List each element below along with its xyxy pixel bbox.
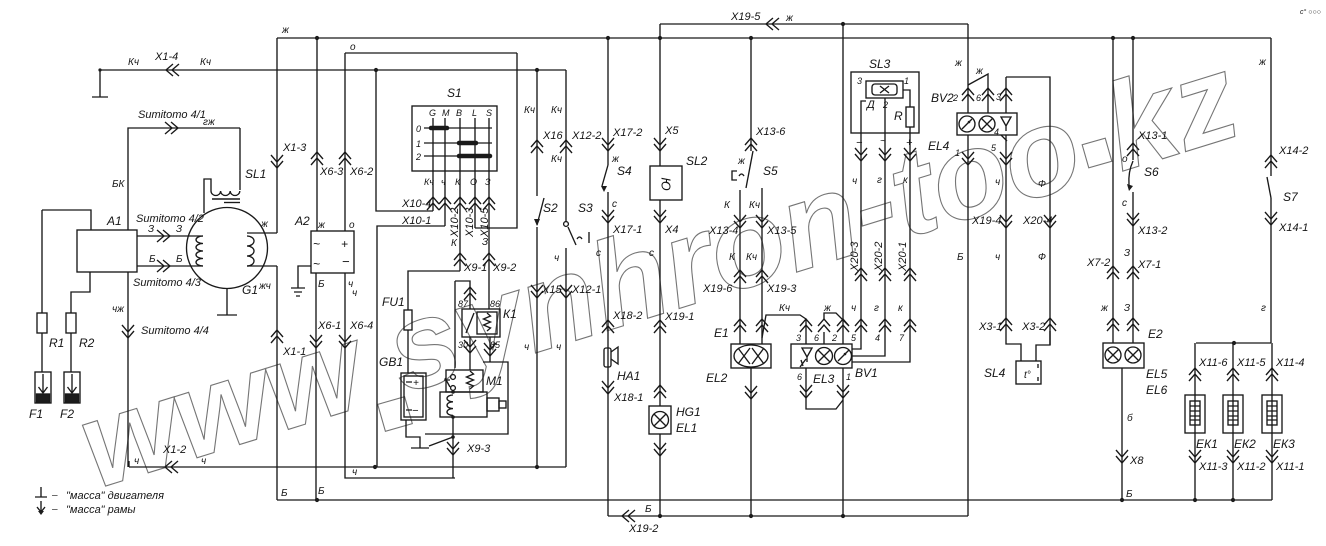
svg-text:ч: ч (995, 177, 1000, 188)
svg-text:−: − (856, 137, 863, 149)
svg-text:ж: ж (954, 58, 963, 69)
wire K1 pin30 down to M1 (469, 337, 471, 370)
svg-text:+: + (341, 237, 348, 251)
connector X13-6 (745, 138, 757, 151)
connector X14-2 (1265, 155, 1277, 168)
svg-text:X13-6: X13-6 (755, 126, 786, 138)
wire S2 column (Кч X16 X15 ч) (536, 70, 538, 467)
S1 column wires (433, 118, 489, 309)
svg-text:Кч: Кч (749, 200, 760, 211)
svg-text:Sumitomo 4/3: Sumitomo 4/3 (133, 277, 202, 289)
connector X17-2 (602, 138, 614, 151)
M1 motor winding (447, 395, 453, 415)
node junctions on Б bus (315, 498, 1235, 502)
svg-text:З: З (176, 224, 182, 235)
svg-text:ж: ж (1100, 303, 1109, 314)
svg-text:ч: ч (524, 342, 529, 353)
svg-text:2: 2 (831, 333, 837, 343)
connectors X11-6 X11-5 X11-4 (1189, 368, 1201, 381)
connector X13-1 (1127, 143, 1139, 156)
component A2 (rectifier) (311, 231, 354, 273)
svg-text:З: З (1124, 303, 1130, 314)
component SL3 box (851, 72, 919, 133)
wire Х6-3 (ж) from main bus to A2 (316, 38, 318, 231)
svg-text:X1-1: X1-1 (282, 346, 306, 358)
connector below EL2 (745, 386, 757, 399)
svg-text:~: ~ (313, 257, 320, 271)
svg-text:6: 6 (814, 333, 819, 343)
svg-text:Б: Б (318, 279, 325, 290)
svg-text:S7: S7 (1283, 190, 1299, 204)
wire ч from X19-5 bus down to EL3 pin2 (842, 24, 844, 344)
ground at A2 (291, 266, 311, 296)
svg-text:85: 85 (490, 340, 501, 350)
svg-text:ж: ж (1258, 57, 1267, 68)
svg-text:А1: А1 (106, 214, 122, 228)
svg-text:ж: ж (317, 220, 326, 231)
component SL2 box (650, 166, 682, 200)
svg-text:Б: Б (281, 488, 288, 499)
wire EK3 column (1271, 343, 1273, 500)
wire S5 output К (X13-4, X19-6) to E1 (739, 190, 741, 344)
svg-text:4: 4 (994, 127, 999, 137)
wire K1 pin85 down to starter housing (489, 337, 491, 362)
svg-text:З: З (148, 224, 154, 235)
svg-text:X11-2: X11-2 (1236, 461, 1266, 473)
svg-text:X13-2: X13-2 (1137, 225, 1167, 237)
svg-text:Кч: Кч (551, 154, 562, 165)
lamp HG1/EL1 (649, 406, 671, 434)
watermark www synhron-too kz (63, 28, 1252, 515)
svg-text:X1-2: X1-2 (162, 444, 186, 456)
svg-text:X12-2: X12-2 (571, 130, 601, 142)
svg-text:о: о (349, 220, 355, 231)
resistor R2 (71, 272, 90, 372)
battery GB1 (401, 373, 426, 420)
svg-text:~: ~ (313, 237, 320, 251)
wire Ф X20-4 down to SL4 (1036, 331, 1050, 361)
svg-text:ж: ж (281, 25, 290, 36)
wire Кч jog E1 to EL3 pin3 (762, 315, 806, 338)
connector E2 left pin (1107, 318, 1119, 331)
svg-text:X4: X4 (664, 224, 678, 236)
svg-text:BV1: BV1 (855, 366, 878, 380)
svg-text:Кч: Кч (551, 105, 562, 116)
svg-text:ч: ч (352, 288, 357, 299)
connector chevrons X10-4 X10-1 X10-2 X10-3 X10-5 (427, 197, 439, 210)
svg-text:X1-4: X1-4 (154, 51, 178, 63)
wire K1 pin87 feed (455, 281, 470, 368)
connector Х6-2 (339, 152, 351, 165)
svg-text:Кч: Кч (746, 252, 757, 263)
svg-text:ЕК1: ЕК1 (1196, 437, 1218, 451)
connector X1-3 (271, 155, 283, 168)
svg-text:г: г (877, 175, 882, 186)
svg-text:X7-2: X7-2 (1086, 257, 1110, 269)
svg-text:FU1: FU1 (382, 295, 405, 309)
connector X9-3 (447, 442, 459, 455)
connector X3-1 (1000, 318, 1012, 331)
resistor R in SL3 (906, 107, 914, 127)
speedometer BV1 circle (835, 348, 852, 365)
svg-text:EL1: EL1 (676, 421, 697, 435)
wire bus X19-5 (y=24) (660, 23, 968, 25)
svg-text:Sumitomo 4/4: Sumitomo 4/4 (141, 325, 209, 337)
svg-text:SL2: SL2 (686, 154, 708, 168)
svg-text:EL6: EL6 (1146, 383, 1168, 397)
svg-text:–: – (51, 490, 58, 501)
connector X9-1 (454, 253, 466, 266)
svg-text:ч: ч (134, 456, 139, 467)
connector X18-1 (602, 381, 614, 394)
svg-text:G1: G1 (242, 283, 258, 297)
svg-text:X9-2: X9-2 (492, 262, 516, 274)
svg-text:X10-5: X10-5 (479, 207, 491, 238)
svg-text:30: 30 (458, 340, 468, 350)
wire X1-3 (ж) from main bus to G1 (276, 38, 278, 233)
svg-text:X11-6: X11-6 (1198, 357, 1228, 369)
svg-text:З: З (482, 237, 488, 248)
svg-text:1: 1 (846, 372, 851, 382)
svg-text:B: B (456, 108, 462, 118)
connector X18-2 (602, 320, 614, 333)
svg-text:2: 2 (882, 100, 888, 110)
svg-text:Sumitomo 4/1: Sumitomo 4/1 (138, 109, 206, 121)
instrument BV2 box (957, 113, 1017, 135)
svg-text:X11-5: X11-5 (1236, 357, 1266, 369)
wire brush diagonal to M1 (429, 437, 453, 446)
svg-text:с: с (596, 248, 601, 259)
connector X17-1 (602, 210, 614, 223)
spark plug F1 (35, 372, 51, 403)
svg-text:3: 3 (796, 333, 801, 343)
wire bus Кч (y=70) (100, 69, 566, 71)
svg-text:X19-2: X19-2 (628, 523, 658, 535)
svg-text:S4: S4 (617, 164, 632, 178)
S1 row lines (424, 128, 492, 156)
connector X14-1 (1265, 212, 1277, 225)
svg-text:ж: ж (737, 156, 746, 167)
connector X13-4 (734, 215, 746, 228)
svg-text:~: ~ (880, 136, 886, 147)
wire main bus ж (y=38) (277, 37, 1271, 39)
svg-text:X19-1: X19-1 (664, 311, 694, 323)
legend ground symbol двигателя (35, 487, 47, 497)
wire S3 column (Кч X12-2 X12-1 ч) (565, 70, 567, 467)
svg-text:Х6-4: Х6-4 (349, 320, 373, 332)
connector Х6-1 (310, 335, 322, 348)
ground at left end of X1-4 wire (92, 70, 108, 97)
connector X3-2 (1044, 318, 1056, 331)
wire Б bus2 (y=516) (608, 515, 968, 517)
starter M1 solenoid box (446, 370, 483, 392)
svg-text:Б: Б (318, 486, 325, 497)
G1 left winding (196, 236, 203, 266)
svg-text:X19-6: X19-6 (702, 283, 733, 295)
wire FU1 to GB1 + (407, 330, 409, 373)
svg-text:X10-3: X10-3 (464, 207, 476, 238)
connector below pin1 (837, 385, 849, 398)
wire Sumitomo 4/1 (БК) from A1 top to SL1 (128, 128, 240, 230)
relay K1 box (462, 309, 500, 337)
wire S4 to horn and Б bus2 (607, 192, 609, 516)
svg-text:X17-1: X17-1 (612, 224, 642, 236)
wire о feed to X10-3 (475, 53, 517, 228)
node junctions on Кч bus (374, 68, 539, 72)
heater EK1 (1185, 395, 1205, 433)
wire G1 ж output to X1-3 column (247, 232, 277, 234)
K1 coil box (477, 312, 497, 334)
node M1 terminals (451, 390, 455, 439)
wire S4 column from main bus (607, 38, 609, 165)
svg-text:X18-1: X18-1 (613, 392, 643, 404)
svg-text:X13-1: X13-1 (1137, 130, 1167, 142)
connectors X11-3 X11-2 X11-1 (1189, 450, 1201, 463)
wire G1 жч output to X1-1 column (247, 265, 277, 267)
svg-text:HG1: HG1 (676, 405, 701, 419)
wire A1 to G1 (Б, Sumitomo 4/3) (137, 265, 203, 267)
S1 contact bar row1 B-L (459, 141, 476, 146)
svg-text:Кч: Кч (779, 303, 790, 314)
dashboard cluster EL3 box (791, 344, 852, 368)
connector X13-5 (756, 215, 768, 228)
svg-text:X10-2: X10-2 (449, 208, 461, 238)
svg-text:Б: Б (149, 254, 156, 265)
connector X19-3 (756, 270, 768, 283)
svg-text:X16: X16 (542, 130, 563, 142)
svg-text:чж: чж (112, 304, 125, 315)
svg-text:X14-2: X14-2 (1278, 145, 1308, 157)
svg-text:F2: F2 (60, 407, 74, 421)
wire Х6-2 (о) from о bus to A2 (344, 53, 346, 231)
svg-text:г: г (1261, 303, 1266, 314)
svg-text:1: 1 (904, 76, 909, 86)
svg-text:X3-2: X3-2 (1021, 321, 1045, 333)
svg-text:б: б (1127, 412, 1133, 424)
wire A1 top-left to R1 (42, 210, 91, 230)
svg-text:Б: Б (645, 504, 652, 515)
wire S5 column from main bus (750, 38, 752, 151)
generator G1 circle (187, 208, 268, 289)
wire BV2 pin3 loop to Ф wire (1006, 77, 1050, 345)
S5 bracket symbol (732, 171, 744, 180)
wire EL3 pin6 bottom jog (806, 368, 843, 409)
svg-text:2: 2 (415, 152, 421, 162)
wire ч return X10-1 to ч bus (377, 226, 445, 467)
starter housing outline (425, 362, 508, 434)
wire ж diagonal branch to pin6 (968, 74, 988, 113)
connector on EL1 top (654, 385, 666, 398)
svg-text:Х20-2: Х20-2 (873, 242, 885, 272)
connector chevron on Sumitomo 4/1 (165, 122, 178, 134)
svg-text:3: 3 (996, 92, 1001, 102)
svg-text:гж: гж (203, 117, 216, 128)
K1 coil zigzag (484, 313, 491, 331)
svg-text:Х20-3: Х20-3 (849, 241, 861, 272)
svg-text:X10-1: X10-1 (401, 215, 431, 227)
EL3 lamp circle-X (816, 348, 833, 365)
svg-text:X15: X15 (541, 284, 562, 296)
svg-text:Б: Б (1126, 489, 1133, 500)
connector X19-5 chevron (766, 18, 779, 30)
connectors EL3 pins 5 4 7 (855, 319, 867, 332)
wire bus о (y=53) (345, 52, 517, 54)
svg-text:G: G (429, 108, 436, 118)
connector X5 (654, 138, 666, 151)
svg-text:M: M (442, 108, 450, 118)
svg-text:О: О (470, 177, 477, 187)
fuse FU1 (404, 310, 412, 330)
svg-text:S6: S6 (1144, 165, 1159, 179)
svg-text:ч: ч (556, 342, 561, 353)
BV2 gauge circle (959, 116, 975, 132)
connectors below SL3 (855, 148, 867, 161)
connector E2 right pin (1127, 318, 1139, 331)
wire EL2 down to Б bus2 (750, 368, 752, 516)
svg-text:Б: Б (957, 252, 964, 263)
node junction on X19-5 at x843 (841, 22, 845, 26)
svg-text:Б: Б (176, 254, 183, 265)
switch S3 contact and blade (564, 222, 569, 227)
svg-text:Х6-2: Х6-2 (349, 166, 373, 178)
legend ground symbol рамы (37, 501, 45, 512)
wire A1 to G1 (З, Sumitomo 4/2) (137, 235, 203, 237)
wire EL3 pin1 down to Б bus2 (842, 368, 844, 516)
svg-text:"масса" рамы: "масса" рамы (66, 504, 136, 516)
S1 contact bar row0 G-M (431, 126, 447, 131)
connector X15 (531, 285, 543, 298)
svg-text:SL4: SL4 (984, 366, 1006, 380)
svg-text:S2: S2 (543, 201, 558, 215)
wire EK2 column (1232, 343, 1234, 500)
wire EK top bus (1196, 342, 1271, 344)
wire ж jog pin6 (824, 313, 848, 325)
svg-text:BV2: BV2 (931, 91, 954, 105)
svg-text:R1: R1 (49, 336, 64, 350)
M1 motor body (440, 392, 487, 417)
BV2 lamp circle-X (979, 116, 995, 132)
connector X1-4 chevron (166, 64, 179, 76)
connector X16 (531, 140, 543, 153)
wire GB1 - to engine ground (406, 420, 429, 448)
wire EL4 pin1 Б down to Б bus2 corner (967, 135, 969, 516)
svg-text:X10-4: X10-4 (401, 198, 431, 210)
S3 thermal bracket (577, 232, 589, 243)
svg-text:SL3: SL3 (869, 57, 891, 71)
connectors EL3 pins 3 6 2 (800, 319, 812, 332)
S1 contact bar row2 B-S (459, 154, 490, 159)
svg-text:ч: ч (554, 253, 559, 264)
svg-text:87: 87 (458, 299, 469, 309)
node junctions on main bus (315, 36, 1135, 40)
svg-text:X9-1: X9-1 (463, 262, 487, 274)
connector X20-4 (1044, 215, 1056, 228)
connector X1-2 (165, 461, 178, 473)
connectors X20-3 X20-2 X20-1 (855, 268, 867, 281)
G1 right winding (247, 236, 254, 266)
headlight E1/EL2 (731, 344, 771, 368)
connector chevron Sumitomo 4/4 (122, 325, 134, 338)
wire EL5/EL6 б down to Б bus (1121, 368, 1123, 500)
svg-text:+: + (906, 137, 913, 149)
connectors BV2 pins 2 6 3 (962, 88, 974, 101)
svg-text:Х6-1: Х6-1 (317, 320, 341, 332)
connector X9-2 (483, 253, 495, 266)
wire К from X9-1 to fuse FU1 (408, 271, 460, 310)
svg-text:Ф: Ф (1038, 179, 1046, 190)
svg-text:с° ○○○: с° ○○○ (1300, 8, 1321, 16)
svg-text:"масса" двигателя: "масса" двигателя (66, 490, 164, 502)
svg-text:М1: М1 (486, 374, 503, 388)
svg-text:ЕК2: ЕК2 (1234, 437, 1256, 451)
svg-text:S3: S3 (578, 201, 593, 215)
node junctions on ч bus (373, 465, 539, 469)
inductor SL1 pickup coil (239, 128, 241, 190)
svg-text:З: З (1124, 248, 1130, 259)
wire EL3 pin stubs (806, 319, 824, 344)
svg-text:X19-5: X19-5 (730, 11, 761, 23)
svg-text:Х20-1: Х20-1 (897, 242, 909, 272)
svg-text:о: о (1122, 154, 1128, 165)
heater EK3 (1262, 395, 1282, 433)
svg-text:X14-1: X14-1 (1278, 222, 1308, 234)
svg-text:X19-3: X19-3 (766, 283, 797, 295)
svg-text:ч: ч (352, 467, 357, 478)
svg-text:К1: К1 (503, 307, 517, 321)
connector X8 (1116, 450, 1128, 463)
svg-text:0: 0 (416, 124, 421, 134)
thermo sensor SL4 (1016, 361, 1041, 384)
connector X19-4 (1000, 215, 1012, 228)
svg-text:Е1: Е1 (714, 326, 729, 340)
svg-text:с: с (649, 248, 654, 259)
heater EK2 (1223, 395, 1243, 433)
wire EL4 pin5 ч down to SL4 (1006, 135, 1021, 361)
svg-text:6: 6 (976, 93, 981, 103)
wire ч bus (y=467) (129, 461, 566, 467)
svg-text:ж: ж (975, 66, 984, 77)
connector X7-1 (1127, 266, 1139, 279)
svg-text:2: 2 (952, 93, 958, 103)
connector Х6-3 (311, 152, 323, 165)
svg-text:К: К (455, 177, 461, 187)
svg-text:БК: БК (112, 179, 126, 190)
svg-text:R2: R2 (79, 336, 95, 350)
svg-text:X18-2: X18-2 (612, 310, 642, 322)
svg-text:GB1: GB1 (379, 355, 403, 369)
svg-text:ж: ж (823, 303, 832, 314)
svg-text:1: 1 (416, 139, 421, 149)
wire EK1 column (1194, 343, 1196, 500)
connector EL4 pin1 (962, 152, 974, 165)
wire к SL3 to EL3 pin7 (852, 133, 910, 362)
svg-text:А2: А2 (294, 214, 310, 228)
connector X13-2 (1127, 213, 1139, 226)
svg-text:4: 4 (875, 333, 880, 343)
svg-text:S5: S5 (763, 164, 778, 178)
horn HA1 (604, 348, 611, 367)
SL3 diode element (866, 81, 903, 98)
connector on K1 pin87 (464, 287, 476, 300)
svg-text:X12-1: X12-1 (571, 284, 601, 296)
wire S7 column from main bus (1270, 38, 1272, 176)
svg-text:Кч: Кч (128, 57, 139, 68)
svg-text:ч: ч (851, 303, 856, 314)
spark plug F2 (64, 372, 80, 403)
svg-text:ж: ж (785, 13, 794, 24)
wire S6 column from main bus (1132, 38, 1134, 160)
svg-text:−: − (412, 405, 419, 417)
